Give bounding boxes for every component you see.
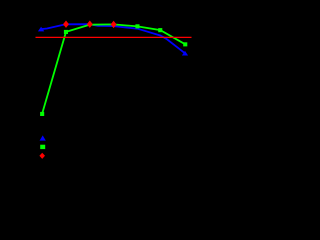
blue triangle marker, first point [38,27,44,32]
green square marker, point 7 [183,42,187,46]
chart: three-series plot on black background [0,0,210,210]
legend: green square [40,145,45,149]
green square marker, point 2 [64,30,68,34]
green square marker, point 1 [40,112,44,116]
blue triangle marker, last point [182,51,188,56]
green square marker, point 5 [135,24,139,28]
blue curve (series 1) [41,24,185,53]
red horizontal reference line [36,36,192,38]
red diamond marker 1 [63,21,69,28]
red diamond marker 2 [87,21,93,28]
legend: blue triangle [40,135,46,140]
green square marker, point 6 [158,28,162,32]
legend: red diamond [39,153,45,159]
green curve (series 2) [42,24,185,114]
red diamond marker 3 [111,21,117,28]
